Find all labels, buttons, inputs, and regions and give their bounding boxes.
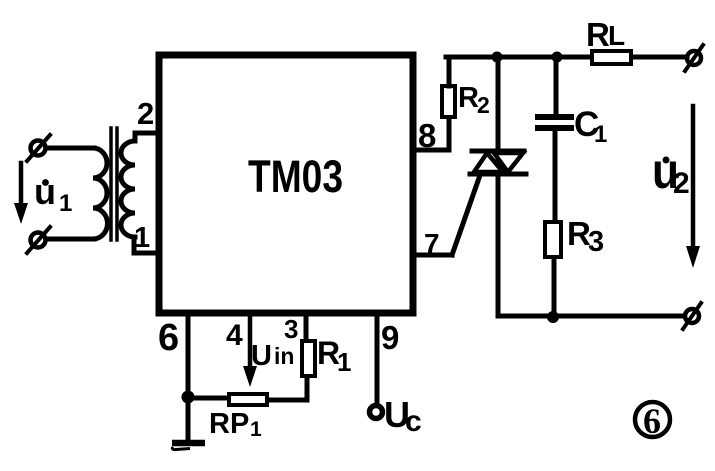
wire pin 7 xyxy=(417,253,452,258)
node junction C1 top xyxy=(552,52,563,63)
svg-text:1: 1 xyxy=(250,418,262,441)
wire C1 top xyxy=(554,57,559,114)
capacitor C1 xyxy=(538,117,571,128)
svg-text:3: 3 xyxy=(588,226,604,258)
wire triac gate diagonal xyxy=(452,178,479,255)
label u1 xyxy=(34,171,72,217)
resistor R1 xyxy=(302,341,315,376)
wire bottom rail xyxy=(498,314,684,319)
svg-text:RP: RP xyxy=(209,408,249,440)
wire top rail xyxy=(446,55,590,60)
label R1 xyxy=(317,335,351,377)
svg-text:R: R xyxy=(586,16,610,53)
svg-text:6: 6 xyxy=(643,401,661,441)
potentiometer RP1 xyxy=(229,394,267,405)
wire C1 to R3 xyxy=(553,131,558,221)
svg-text:2: 2 xyxy=(137,96,154,131)
node junction triac top xyxy=(492,52,503,63)
label RL xyxy=(586,16,625,53)
svg-text:7: 7 xyxy=(424,228,440,259)
transformer T1 primary winding xyxy=(93,148,107,239)
wire R2 top to top rail xyxy=(447,57,452,86)
figure number 6 xyxy=(635,401,670,441)
svg-text:1: 1 xyxy=(337,347,351,377)
svg-text:in: in xyxy=(274,343,294,369)
wire bottom terminal to primary xyxy=(46,237,94,242)
svg-text:L: L xyxy=(608,20,625,51)
label R2 xyxy=(458,82,490,118)
wire pin 1 (secondary bottom to box) xyxy=(134,237,159,253)
node junction pot left xyxy=(182,391,195,404)
svg-text:R: R xyxy=(458,82,479,114)
wire pin 2 (secondary top to box) xyxy=(135,133,159,141)
wire pot right to R1 bottom xyxy=(269,378,307,400)
svg-text:TM03: TM03 xyxy=(248,151,343,202)
triac VS1 xyxy=(470,151,526,174)
label Uc xyxy=(384,394,422,438)
label u2 xyxy=(652,143,690,200)
svg-text:c: c xyxy=(405,405,422,438)
wire pin 3 xyxy=(304,317,309,341)
wire R3 to bottom rail xyxy=(552,258,557,316)
wire pin 4 with wiper arrow xyxy=(243,317,257,387)
resistor RL xyxy=(592,51,631,64)
node junction R3 bottom xyxy=(547,311,559,323)
terminal Uc xyxy=(370,406,383,419)
wire pin 8 xyxy=(417,119,449,150)
svg-text:1: 1 xyxy=(134,222,150,254)
wire triac main vertical xyxy=(496,57,501,316)
wire RL to output terminal xyxy=(633,55,687,60)
svg-text:1: 1 xyxy=(59,190,72,217)
svg-text:4: 4 xyxy=(226,319,243,352)
wire top terminal to primary xyxy=(46,146,94,151)
svg-text:6: 6 xyxy=(158,317,179,359)
arrow u1 xyxy=(14,163,28,224)
label RP1 xyxy=(209,408,262,441)
terminal output bottom (circle with slash) xyxy=(683,303,701,329)
op-amp U1 box TM03 xyxy=(159,55,413,313)
svg-text:9: 9 xyxy=(381,319,399,356)
arrow u2 xyxy=(686,106,700,268)
wire pin 6 xyxy=(186,317,191,440)
transformer T1 secondary winding xyxy=(121,141,135,237)
svg-text:2: 2 xyxy=(673,167,690,200)
terminal input top (circle with slash) xyxy=(27,135,50,161)
ground xyxy=(172,443,205,450)
transformer core xyxy=(111,128,117,240)
svg-text:2: 2 xyxy=(477,92,490,118)
wire pin 9 xyxy=(375,317,380,404)
terminal input bottom (circle with slash) xyxy=(27,227,50,253)
label C1 xyxy=(574,105,607,148)
svg-text:3: 3 xyxy=(284,314,298,344)
resistor R3 xyxy=(545,222,561,257)
svg-text:u: u xyxy=(34,171,56,212)
svg-text:1: 1 xyxy=(594,121,607,148)
terminal output top (circle with slash) xyxy=(685,45,703,71)
svg-text:8: 8 xyxy=(418,117,436,154)
label R3 xyxy=(567,215,604,258)
resistor R2 xyxy=(442,86,455,117)
wire junction to pot left xyxy=(188,396,227,401)
svg-text:U: U xyxy=(251,340,272,372)
label Uin xyxy=(251,340,294,372)
